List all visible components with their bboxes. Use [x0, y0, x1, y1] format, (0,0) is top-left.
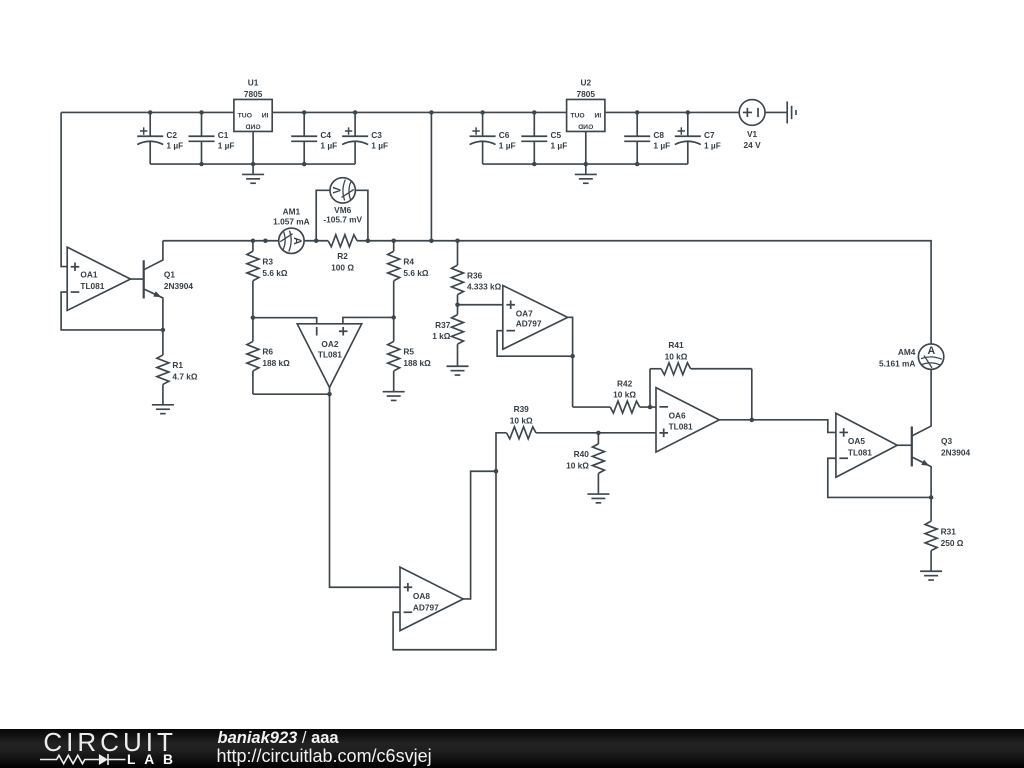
- svg-text:1 µF: 1 µF: [653, 141, 670, 151]
- svg-text:4.7 kΩ: 4.7 kΩ: [172, 372, 197, 382]
- junction VM6 left: [314, 239, 319, 244]
- svg-text:AM4: AM4: [898, 347, 916, 357]
- wire OA2 output down to OA8 + input: [330, 387, 401, 587]
- ammeter AM4 5.161mA: [879, 344, 944, 369]
- resistor R42 10k: [573, 378, 656, 413]
- ground under U1: [242, 174, 264, 183]
- junction R36 R37 OA7+: [455, 303, 460, 308]
- svg-text:2N3904: 2N3904: [941, 447, 970, 457]
- junction main line stub: [263, 239, 268, 244]
- wire U1 GND pin: [252, 131, 254, 174]
- svg-text:7805: 7805: [577, 89, 596, 99]
- svg-text:TL081: TL081: [669, 422, 693, 432]
- capacitor C4 1uF: [291, 112, 337, 164]
- footer url line: [217, 747, 432, 765]
- svg-text:OA1: OA1: [80, 270, 97, 280]
- junction gnd rail U2: [584, 162, 589, 167]
- svg-text:C5: C5: [551, 130, 562, 140]
- svg-text:OA8: OA8: [413, 591, 430, 601]
- svg-text:OUT: OUT: [569, 113, 584, 120]
- svg-text:TL081: TL081: [318, 350, 342, 360]
- resistor R1 4.7k: [157, 330, 198, 405]
- svg-text:C8: C8: [653, 130, 664, 140]
- wire R36R37 node to OA7 + input: [458, 304, 503, 306]
- resistor R40 10k: [566, 433, 604, 494]
- svg-text:TL081: TL081: [80, 281, 104, 291]
- svg-text:R5: R5: [403, 347, 414, 357]
- svg-text:V: V: [331, 187, 343, 194]
- svg-text:AD797: AD797: [516, 318, 542, 328]
- junction rail C2: [148, 110, 153, 115]
- svg-text:188 kΩ: 188 kΩ: [262, 358, 290, 368]
- ground under R40: [587, 494, 609, 503]
- svg-text:R36: R36: [467, 270, 483, 280]
- junction gnd rail C4: [302, 162, 307, 167]
- resistor R4 5.6k: [388, 241, 429, 318]
- svg-text:U1: U1: [248, 78, 259, 88]
- junction node R3 top: [251, 239, 256, 244]
- capacitor C3 1uF polarized: [342, 112, 388, 164]
- svg-text:2N3904: 2N3904: [164, 281, 193, 291]
- wire R41 left riser: [649, 369, 651, 407]
- wire OA8 - input loop: [393, 471, 496, 650]
- svg-text:1.057 mA: 1.057 mA: [273, 216, 309, 226]
- svg-text:OA5: OA5: [848, 436, 865, 446]
- svg-text:5.6 kΩ: 5.6 kΩ: [262, 268, 287, 278]
- svg-text:OA7: OA7: [516, 308, 533, 318]
- svg-text:C4: C4: [320, 130, 331, 140]
- svg-text:C3: C3: [371, 130, 382, 140]
- op-amp OA8 AD797: [400, 567, 463, 631]
- wire OA7 output down: [568, 317, 573, 407]
- wire OA8 output up to node: [463, 471, 496, 599]
- junction rail C6: [480, 110, 485, 115]
- svg-text:24 V: 24 V: [744, 140, 762, 150]
- svg-text:1 kΩ: 1 kΩ: [432, 331, 451, 341]
- junction OA8 node: [494, 469, 499, 474]
- junction R4 R5 OA2+: [391, 315, 396, 320]
- voltmeter VM6 -105.7mV: [316, 178, 368, 241]
- svg-text:100 Ω: 100 Ω: [331, 263, 354, 273]
- junction rail C8: [635, 110, 640, 115]
- wire capacitor bottom rail right: [483, 163, 688, 165]
- ground under R1: [152, 405, 174, 414]
- wire OA5 - input feedback: [828, 458, 931, 497]
- svg-text:R4: R4: [403, 257, 414, 267]
- ammeter AM1 1.057mA: [273, 206, 309, 253]
- wire left riser to OA1 + input: [61, 112, 67, 266]
- voltage regulator U1 7805: [234, 78, 272, 132]
- resistor R39 10k: [507, 404, 657, 439]
- svg-text:1 µF: 1 µF: [499, 141, 516, 151]
- wire main line right of R2: [357, 241, 931, 345]
- wire capacitor bottom rail left: [150, 163, 355, 165]
- junction Q1 emitter R1: [161, 328, 166, 333]
- svg-text:188 kΩ: 188 kΩ: [403, 358, 431, 368]
- svg-text:TL081: TL081: [848, 448, 872, 458]
- capacitor C5 1uF: [521, 112, 567, 164]
- wire AM1 to R2: [304, 240, 328, 242]
- svg-text:R39: R39: [514, 404, 530, 414]
- wire main line left of AM1: [163, 240, 279, 242]
- op-amp OA6 TL081: [656, 388, 719, 452]
- footer username line: [218, 730, 339, 747]
- svg-text:R6: R6: [262, 347, 273, 357]
- svg-text:VM6: VM6: [334, 205, 351, 215]
- capacitor C8 1uF: [624, 112, 670, 164]
- capacitor C7 1uF polarized: [675, 112, 721, 164]
- wire U2 GND pin: [585, 131, 587, 174]
- junction gnd rail U1: [251, 162, 256, 167]
- svg-text:1 µF: 1 µF: [551, 141, 568, 151]
- op-amp OA5 TL081: [836, 413, 897, 477]
- junction VM6 right: [366, 239, 371, 244]
- svg-text:Q1: Q1: [164, 269, 175, 279]
- resistor R41 10k: [650, 340, 752, 375]
- wire OA2 + input to R4R5 node: [343, 317, 394, 323]
- svg-text:U2: U2: [580, 78, 591, 88]
- svg-text:1 µF: 1 µF: [371, 141, 388, 151]
- svg-text:A: A: [291, 237, 303, 245]
- junction OA6 - input: [648, 405, 653, 410]
- svg-text:R1: R1: [172, 360, 183, 370]
- resistor R5 188k: [388, 317, 431, 391]
- op-amp OA2 TL081: [297, 324, 362, 388]
- svg-text:10 kΩ: 10 kΩ: [613, 390, 636, 400]
- svg-text:Q3: Q3: [941, 436, 952, 446]
- wire V+ rail left segment: [61, 111, 234, 113]
- CircuitLab logo text: [43, 729, 176, 755]
- svg-text:7805: 7805: [244, 89, 263, 99]
- junction rail C4: [302, 110, 307, 115]
- junction rail C3: [353, 110, 358, 115]
- svg-text:1 µF: 1 µF: [704, 141, 721, 151]
- resistor R31 250: [925, 497, 964, 571]
- svg-text:R2: R2: [337, 251, 348, 261]
- svg-text:10 kΩ: 10 kΩ: [566, 460, 589, 470]
- svg-text:1 µF: 1 µF: [166, 141, 183, 151]
- voltage source V1 24V: [739, 100, 765, 151]
- resistor R6 188k: [247, 318, 290, 395]
- wire V+ rail right segment: [605, 111, 739, 113]
- junction gnd rail C5: [532, 162, 537, 167]
- svg-text:IN: IN: [594, 113, 601, 120]
- junction OA2 output: [327, 392, 332, 397]
- junction rail riser: [429, 110, 434, 115]
- svg-text:R37: R37: [435, 320, 451, 330]
- svg-text:5.6 kΩ: 5.6 kΩ: [403, 268, 428, 278]
- wire OA1 - input feedback: [61, 292, 163, 330]
- footer bar: [0, 729, 1024, 768]
- svg-text:10 kΩ: 10 kΩ: [665, 351, 688, 361]
- transistor Q1 2N3904: [131, 241, 194, 330]
- junction R36 top: [455, 239, 460, 244]
- svg-text:V1: V1: [747, 129, 758, 139]
- transistor Q3 2N3904: [897, 370, 970, 498]
- ground under R31: [920, 571, 942, 580]
- resistor R37 1k: [432, 305, 463, 367]
- svg-text:GND: GND: [578, 124, 593, 131]
- svg-text:5.161 mA: 5.161 mA: [879, 359, 915, 369]
- svg-text:C2: C2: [166, 130, 177, 140]
- ground right of V1: [787, 101, 796, 123]
- svg-text:OA6: OA6: [669, 411, 686, 421]
- capacitor C6 1uF polarized: [470, 112, 516, 164]
- wire OA6 output to OA5 + input: [719, 420, 836, 433]
- junction rail C5: [532, 110, 537, 115]
- ground under R37: [447, 366, 469, 375]
- svg-text:GND: GND: [245, 124, 260, 131]
- junction gnd rail C1: [199, 162, 204, 167]
- wire R39 left leg: [496, 433, 507, 471]
- svg-text:C7: C7: [704, 130, 715, 140]
- svg-text:OA2: OA2: [321, 339, 338, 349]
- junction OA6 output R41: [750, 418, 755, 423]
- op-amp OA7 AD797: [503, 285, 568, 349]
- wire R3R6 node to OA2 - input: [253, 318, 317, 324]
- capacitor C2 1uF polarized: [137, 112, 183, 164]
- junction rail C7: [686, 110, 691, 115]
- svg-text:R42: R42: [617, 378, 633, 388]
- svg-text:10 kΩ: 10 kΩ: [510, 416, 533, 426]
- wire OA7 - feedback: [497, 331, 573, 357]
- capacitor C1 1uF: [189, 112, 235, 164]
- svg-text:-105.7 mV: -105.7 mV: [323, 215, 362, 225]
- junction R4 top: [391, 239, 396, 244]
- svg-text:R31: R31: [941, 526, 957, 536]
- resistor R2 100: [328, 235, 357, 273]
- svg-text:C1: C1: [218, 130, 229, 140]
- voltage regulator U2 7805: [567, 78, 605, 132]
- wire R41 right drop: [751, 369, 753, 420]
- junction R40 top: [596, 431, 601, 436]
- svg-text:IN: IN: [262, 113, 269, 120]
- junction rail C1: [199, 110, 204, 115]
- svg-text:C6: C6: [499, 130, 510, 140]
- ground under U2: [575, 174, 597, 183]
- svg-text:4.333 kΩ: 4.333 kΩ: [467, 282, 502, 292]
- svg-text:R41: R41: [668, 340, 684, 350]
- op-amp OA1 TL081: [67, 247, 130, 310]
- junction R3 R6 OA2-: [251, 315, 256, 320]
- svg-text:AM1: AM1: [283, 206, 301, 216]
- wire riser rail to main node: [430, 112, 432, 240]
- svg-text:1 µF: 1 µF: [320, 141, 337, 151]
- junction Q3 emitter R31: [929, 495, 934, 500]
- wire V+ rail middle segment: [272, 111, 566, 113]
- wire R6 bottom to OA2 output: [253, 393, 330, 395]
- svg-text:R40: R40: [574, 449, 590, 459]
- svg-text:250 Ω: 250 Ω: [941, 538, 964, 548]
- svg-text:R3: R3: [262, 257, 273, 267]
- svg-text:AD797: AD797: [413, 602, 439, 612]
- junction OA7 feedback: [570, 354, 575, 359]
- svg-text:1 µF: 1 µF: [218, 141, 235, 151]
- svg-text:OUT: OUT: [237, 113, 252, 120]
- resistor R3 5.6k: [247, 241, 288, 318]
- logo resistor-diode glyph: [38, 752, 130, 767]
- junction gnd rail C8: [635, 162, 640, 167]
- resistor R36 4.333k: [452, 241, 502, 305]
- wire V1 to ground: [765, 111, 787, 113]
- ground under R5: [383, 392, 405, 401]
- junction riser main: [429, 239, 434, 244]
- svg-text:A: A: [927, 345, 935, 357]
